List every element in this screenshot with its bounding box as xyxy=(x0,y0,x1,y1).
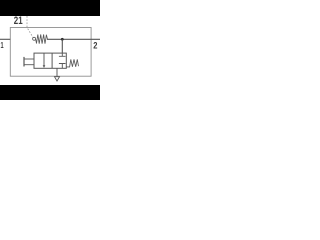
blocked port T bottom xyxy=(59,64,66,69)
valve position divider xyxy=(51,53,53,68)
junction dot xyxy=(61,38,64,41)
wire drop to valve xyxy=(61,39,63,53)
manifold outline (outer rectangle) xyxy=(10,28,91,77)
return spring xyxy=(66,59,78,67)
blocked port T top xyxy=(59,53,66,56)
valve envelope V1 xyxy=(34,53,66,68)
port 1 wire stub xyxy=(0,38,10,40)
drain arrow (to tank) xyxy=(55,77,60,81)
svg-text:1: 1 xyxy=(1,40,4,50)
leader dashed line to adjustment xyxy=(27,16,33,37)
adjustment circle xyxy=(33,37,36,40)
wire rail to port 2 xyxy=(47,38,100,40)
drain wire xyxy=(56,68,58,76)
bottom black band xyxy=(0,85,100,100)
svg-text:2: 2 xyxy=(93,41,97,52)
pilot line lower xyxy=(24,64,34,66)
top black band xyxy=(0,0,100,16)
flow arrow (open position) xyxy=(43,53,45,66)
pilot line upper xyxy=(24,58,34,60)
spring (pressure adjustment) xyxy=(36,35,48,44)
svg-text:21: 21 xyxy=(14,15,23,27)
flow arrow head xyxy=(43,65,46,68)
pilot connection bar xyxy=(23,57,25,67)
